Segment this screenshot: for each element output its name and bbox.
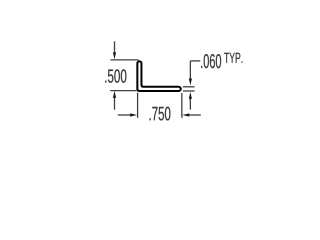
arrow down (.060)	[189, 79, 192, 86]
label TYP.	[224, 53, 242, 63]
arrow left (.750 right)	[182, 113, 189, 116]
extension line top of .500	[110, 59, 138, 61]
label .750	[150, 107, 171, 121]
dim line .060 upper	[189, 61, 191, 79]
extension line .060 bottom	[183, 90, 195, 92]
dim line .500 lower	[114, 98, 116, 110]
arrow up (.060)	[189, 92, 192, 99]
label .500	[105, 69, 126, 82]
arrow up (.500 bottom)	[113, 91, 116, 98]
dim line .500 upper	[114, 41, 116, 53]
leader .060 horizontal	[190, 60, 200, 62]
extension line bottom of .500	[110, 90, 136, 92]
leader .750 left	[118, 114, 131, 116]
extension line .060 top	[183, 86, 195, 88]
extension line .750 right	[181, 93, 183, 118]
label .060	[201, 54, 221, 68]
arrow right (.750 left)	[130, 113, 137, 116]
arrow down (.500 top)	[113, 52, 116, 59]
L-profile outline	[137, 61, 180, 91]
dim line .060 lower	[189, 99, 191, 110]
leader .750 right	[189, 114, 201, 116]
extension line .750 left	[137, 93, 139, 118]
